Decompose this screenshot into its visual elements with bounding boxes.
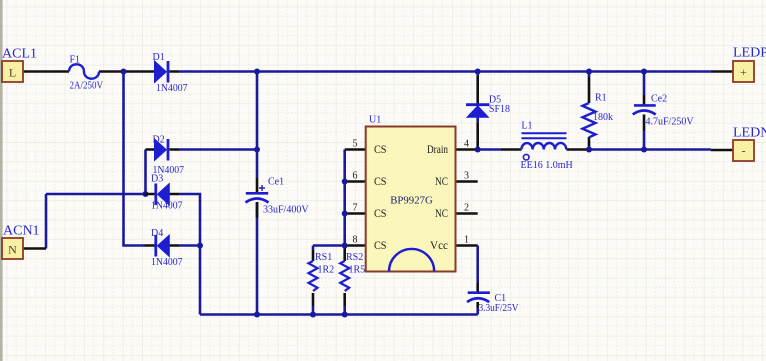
svg-text:Ce1: Ce1: [268, 176, 284, 187]
wire C1 pins black: [476, 283, 479, 308]
wire vertical L node x=123.5: [124, 72, 145, 246]
svg-text:1N4007: 1N4007: [156, 83, 188, 94]
junction RS2 bottom on negative rail: [342, 312, 348, 318]
wire D2 row: [179, 148, 257, 151]
svg-text:D3: D3: [151, 174, 163, 185]
wire ACN1 riser: [45, 194, 48, 249]
wire D5 pins black: [476, 76, 479, 150]
svg-text:ACN1: ACN1: [3, 224, 40, 239]
junction pin 8 on CS bus: [342, 243, 348, 249]
junction Ce1 branch on top rail: [254, 69, 260, 75]
connector ACL1: [2, 47, 37, 83]
svg-text:ACL1: ACL1: [2, 47, 37, 62]
pin 3 stub: [456, 180, 478, 183]
svg-text:F1: F1: [70, 54, 81, 65]
fuse F1: [69, 54, 104, 91]
wire Ce1 pin stubs black: [256, 178, 259, 218]
wire D4 row right: [179, 244, 200, 247]
svg-text:D4: D4: [151, 228, 163, 239]
svg-text:U1: U1: [369, 114, 381, 125]
pin 4 stub: [456, 148, 478, 151]
wire R1 branch: [588, 72, 591, 150]
junction Ce2 bottom on LED- wire: [641, 147, 647, 153]
capacitor Ce1: [246, 176, 310, 215]
wire R1 pins black: [588, 77, 591, 146]
svg-text:33uF/400V: 33uF/400V: [263, 205, 309, 216]
wire D3 anode down to rail x=200: [179, 194, 200, 315]
svg-text:L1: L1: [521, 120, 532, 131]
diode D4: [145, 228, 183, 268]
svg-text:4: 4: [464, 139, 469, 150]
svg-text:CS: CS: [374, 206, 387, 220]
wire Ce2 pins black: [643, 95, 646, 131]
junction drain / D5 anode: [475, 147, 481, 153]
svg-text:NC: NC: [435, 174, 448, 188]
svg-text:LEDP: LEDP: [733, 45, 766, 60]
junction Ce2 top on top rail: [641, 69, 647, 75]
junction N node / D2 anode / D3 cathode: [143, 191, 149, 197]
pin 5 stub: [345, 148, 366, 151]
svg-text:RS1: RS1: [315, 252, 332, 263]
svg-text:7: 7: [353, 203, 358, 214]
wire RS1 branch: [312, 246, 315, 315]
wire LEDP pin black: [711, 70, 733, 73]
svg-text:CS: CS: [374, 174, 387, 188]
svg-text:BP9927G: BP9927G: [390, 195, 433, 207]
svg-text:D1: D1: [153, 52, 165, 63]
resistor RS1: [309, 252, 335, 291]
connector ACN1: [2, 224, 40, 260]
junction pin 6 on CS bus: [342, 179, 348, 185]
wire RS1 pins black: [312, 250, 315, 306]
junction D5 branch on top rail: [475, 69, 481, 75]
connector LEDN: [733, 125, 766, 161]
svg-text:-: -: [742, 144, 746, 158]
wire bottom rail: [200, 313, 478, 316]
wire top rail blue: [179, 70, 711, 73]
diode D2: [146, 135, 185, 177]
svg-text:5: 5: [353, 139, 358, 150]
wire ACL1 to fuse black: [23, 70, 145, 73]
svg-text:6: 6: [353, 171, 358, 182]
svg-text:1N4007: 1N4007: [151, 257, 183, 268]
svg-text:1: 1: [464, 235, 469, 246]
wire D2 left vertical x=145.5: [144, 150, 147, 195]
svg-text:+: +: [740, 65, 747, 79]
wire D5 branch: [476, 72, 479, 123]
svg-text:1N4007: 1N4007: [151, 201, 183, 212]
svg-text:3: 3: [464, 171, 469, 182]
junction L node / D4 branch on top rail: [121, 69, 127, 75]
junction D2 cathode / Ce1 branch: [254, 147, 260, 153]
svg-text:R1: R1: [595, 92, 607, 103]
op-amp U1 BP9927G chip body: [366, 114, 456, 271]
pin 7 stub: [345, 212, 366, 215]
wire Ce2 branch: [643, 72, 646, 150]
svg-text:Vcc: Vcc: [430, 238, 448, 252]
junction RS1 bottom on negative rail: [310, 312, 316, 318]
wire LEDN pin black: [711, 149, 733, 152]
wire Ce1 branch x=257: [256, 72, 259, 315]
svg-text:Drain: Drain: [427, 142, 448, 156]
wire N row y=194: [46, 193, 145, 196]
connector LEDP: [733, 45, 766, 82]
svg-text:2A/250V: 2A/250V: [70, 81, 104, 92]
svg-text:4.7uF/250V: 4.7uF/250V: [646, 117, 695, 128]
svg-text:3.3uF/25V: 3.3uF/25V: [479, 303, 520, 314]
wire Vcc branch: [476, 246, 479, 315]
pin 1 stub: [456, 244, 478, 247]
wire RS2 pins black: [343, 248, 346, 306]
wire RS2 bottom blue: [343, 306, 346, 315]
wire drain row: [478, 148, 711, 151]
junction pin 7 on CS bus: [342, 211, 348, 217]
junction Ce1 bottom on negative rail: [254, 312, 260, 318]
wire ACN1 pin black: [23, 247, 46, 250]
capacitor C1: [467, 293, 519, 314]
svg-text:180k: 180k: [593, 112, 613, 123]
diode D1: [145, 52, 188, 94]
svg-text:Ce2: Ce2: [651, 94, 667, 105]
resistor RS2: [340, 252, 365, 291]
resistor R1: [583, 92, 614, 137]
svg-text:1R5: 1R5: [349, 264, 366, 275]
capacitor Ce2: [633, 94, 695, 128]
junction R1 bottom on LED- wire: [586, 147, 592, 153]
wire pins5-8 vertical x=344.7: [313, 150, 345, 246]
svg-text:2: 2: [464, 203, 469, 214]
wire L1 pins black: [501, 148, 587, 151]
junction D3 anode / D4 anode: [197, 243, 203, 249]
svg-text:N: N: [8, 243, 17, 257]
svg-text:NC: NC: [435, 206, 448, 220]
svg-text:CS: CS: [374, 142, 387, 156]
svg-text:CS: CS: [374, 238, 387, 252]
diode D5: [466, 94, 510, 117]
inductor L1: [521, 120, 573, 171]
svg-text:L: L: [9, 66, 16, 80]
svg-text:RS2: RS2: [346, 252, 363, 263]
svg-text:SF18: SF18: [489, 104, 510, 115]
pin 2 stub: [456, 212, 478, 215]
pin 8 stub: [345, 244, 366, 247]
pin 6 stub: [345, 180, 366, 183]
svg-text:LEDN: LEDN: [733, 125, 766, 140]
svg-text:D2: D2: [153, 135, 165, 146]
svg-text:8: 8: [353, 235, 358, 246]
svg-text:EE16 1.0mH: EE16 1.0mH: [521, 160, 573, 171]
diode D3: [145, 174, 183, 212]
junction R1 top on top rail: [586, 69, 592, 75]
svg-text:1R2: 1R2: [318, 264, 335, 275]
